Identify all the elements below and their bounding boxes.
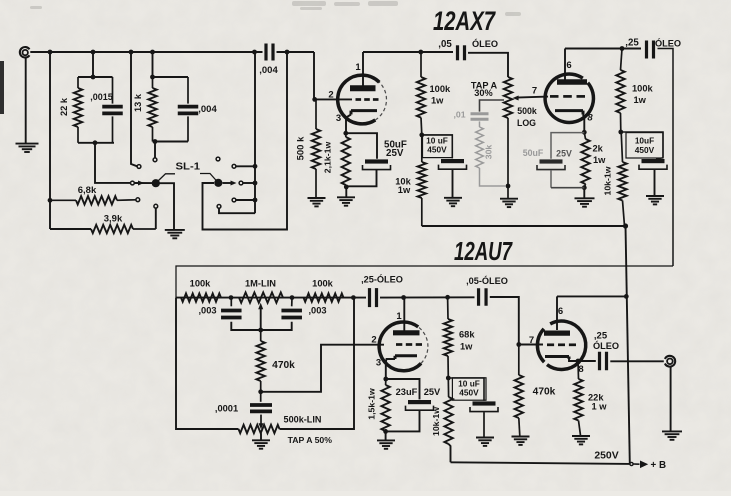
svg-text:10k-1w: 10k-1w [603,166,613,195]
pin 1 wire V2a [403,298,405,331]
svg-text:TAP A 50%: TAP A 50% [288,435,333,445]
contact circle b-corner [217,205,221,209]
label ,01 [453,110,465,120]
wire tone rail [176,297,366,299]
capacitor C ,05 oleo [458,45,465,60]
wiper wire V1b grid [516,97,548,98]
svg-text:450V: 450V [459,388,479,398]
label ,0001 [215,404,238,414]
wire 1,5k gnd [385,431,387,440]
label ,25 top [625,38,639,49]
ground 2k [575,198,595,206]
label OLEO 1 [472,38,498,49]
anode V2b [544,331,570,336]
node 6.8k junction [48,198,53,203]
wire bypass loop [203,52,288,230]
contact circle bottom [154,204,158,208]
node plate1 [418,50,423,55]
label 500k LOG [517,106,537,128]
label TAP A 30% [471,80,498,98]
label ,05-OLEO [466,275,508,286]
svg-text:,25: ,25 [625,38,639,49]
label 100k t1 [190,279,212,289]
wire 3,9k to contact [155,208,157,229]
svg-text:500k: 500k [517,106,537,116]
potentiometer 500k-LIN [239,425,280,433]
svg-text:3,9k: 3,9k [104,214,123,225]
svg-text:68k: 68k [459,330,475,340]
wire to 12AU7 section [176,49,673,298]
svg-text:7: 7 [532,86,537,97]
wire grid V2a [261,345,384,392]
ground pot [500,199,518,207]
resistor 13k [148,77,156,142]
label 10uF 450V (2) [635,135,655,155]
pin 6 wire V2b [556,296,558,330]
resistor 10k 1w (1) [418,135,426,226]
node dots top rail [48,50,290,55]
svg-text:ÓLEO: ÓLEO [655,38,681,49]
wire contact b-top [236,165,255,167]
svg-text:,003: ,003 [198,306,216,316]
capacitor 10uF 450V (2) [639,158,667,169]
capacitor C ,0015 [102,77,123,143]
wire bus drop x255 [254,52,256,213]
node grid V2b [516,342,521,347]
label 10k-1w (3) [431,407,441,436]
node grid1 [312,97,317,102]
label 50uF 25V [384,139,407,159]
label 12AX7 [433,6,496,36]
label 68k 1w [459,330,475,352]
contact circle lower-left [136,198,140,202]
svg-text:3: 3 [376,358,381,369]
svg-text:2: 2 [371,335,376,346]
ground 470k (2) [512,437,530,445]
svg-text:,004: ,004 [259,65,278,76]
wire B+ vertical [626,226,630,464]
svg-text:,0015: ,0015 [90,92,113,102]
pin 1 wire V1a [362,52,364,86]
node tone2 [290,295,295,300]
label 13k [133,93,143,112]
tube V1a envelope [338,75,387,124]
capacitor C ,004 shunt [178,77,199,142]
svg-text:100k: 100k [632,84,654,94]
ground 22k [572,436,590,444]
grid V1b [550,95,585,98]
resistor 100k 1w plate1 [417,52,425,135]
capacitor ,25-OLEO [370,288,377,307]
wire tone rail 2 [380,296,475,298]
wire jack2 gnd [670,367,672,431]
resistor 10k-1w (3) [444,378,452,462]
box 10uF 450V (3) [452,378,486,400]
label 23uF 25V [396,387,441,397]
node plate rail B+ [624,294,629,299]
svg-text:50uF: 50uF [523,148,544,158]
potentiometer 500k LOG [504,77,512,198]
svg-text:ÓLEO: ÓLEO [472,38,498,49]
capacitor ,01 tap [471,114,489,119]
node decouple2 [618,130,623,135]
label 6,8k [78,185,97,196]
label 1M-LIN [245,279,276,289]
capacitor 50uF 25V (2) [537,133,584,188]
label pin2 V1a [328,90,333,101]
node net1 bottom [93,140,98,145]
node cathode1 bottom [344,185,349,190]
capacitor ,25 out [600,352,607,371]
svg-text:470k: 470k [272,360,295,371]
wire cathode1 gnd [345,187,347,197]
label ,0015 [90,92,113,102]
svg-text:3: 3 [336,113,341,124]
resistor 100k tone-right [304,293,344,301]
label 100k t2 [312,279,334,289]
label pin8 V1b [587,113,593,124]
capacitor ,05-OLEO [479,288,487,306]
label 470k tone [272,360,295,371]
anode V1a [350,85,376,91]
wire top rail left [30,51,262,53]
svg-text:30k: 30k [484,145,494,160]
tube V1b envelope [545,74,593,122]
input jack J1 [20,47,30,58]
wire decouple1 cap [422,135,453,159]
anode V2a [393,330,420,335]
label ,004 shunt [198,104,217,115]
node 470k bottom [258,389,263,394]
wire grid V2b [490,297,543,345]
resistor 6,8k [50,196,136,204]
pin 3 wire V1a [346,115,351,134]
wire contact drop x131 [131,52,137,166]
tube V2b envelope [537,321,585,369]
wire rotor-a to ground [156,183,174,229]
svg-text:500k-LIN: 500k-LIN [284,415,322,425]
ground tap [252,440,270,448]
svg-text:ÓLEO: ÓLEO [593,340,619,351]
terminal +B [630,462,640,465]
wiper circle right [239,181,243,185]
svg-text:,05: ,05 [438,39,452,50]
label ,05 [438,39,452,50]
wire net2 top bar [153,76,189,78]
resistor 2,1k-1w [342,133,350,187]
label ,25-OLEO [361,274,403,285]
resistor 3,9k [91,225,156,233]
capacitor C ,004 series [259,44,278,77]
ground input jack [16,144,39,152]
wire plate1 rail [363,51,453,53]
wire plate2 rail [565,48,641,50]
wire top rail after cap [277,51,315,53]
ground 10uF (2) [646,196,664,204]
label pin8 V2b [578,364,583,375]
capacitor 10uF 450V (1) [439,159,467,169]
wire decouple2 cap [621,132,663,158]
svg-text:6,8k: 6,8k [78,185,97,196]
grid V2b dashes [547,343,576,346]
svg-text:2,1k-1w: 2,1k-1w [323,142,333,174]
svg-text:23uF: 23uF [396,387,418,397]
arrowhead wiper left [138,181,144,186]
svg-text:1: 1 [396,311,402,322]
resistor 100k tone-left [181,293,221,301]
cathode V2b [545,357,569,360]
label pin7 V1b [532,86,537,97]
arrowhead pot wiper [513,96,519,101]
svg-text:,01: ,01 [453,110,465,120]
svg-text:470k: 470k [533,387,556,398]
wire tone left loop [176,298,239,429]
svg-text:1,5k-1w: 1,5k-1w [367,388,377,420]
svg-text:+ B: + B [651,460,667,471]
wire 10uF2 gnd [654,170,656,196]
capacitor ,003 left [221,298,261,330]
label ,003 left [198,306,216,316]
label pin6 V2b [558,306,563,317]
svg-text:1M-LIN: 1M-LIN [245,279,276,289]
svg-text:100k: 100k [312,279,334,289]
label pin7 V2b [529,335,534,346]
svg-text:8: 8 [587,113,593,124]
resistor 10k-1w (2) [618,132,626,226]
svg-text:10uF: 10uF [635,135,654,145]
svg-text:,25-ÓLEO: ,25-ÓLEO [361,274,403,285]
ground 2,1k [337,197,355,205]
wire net1 to wiper [95,143,131,183]
label 22k [59,97,69,116]
node decouple1 [419,133,424,138]
wire net2 bottom bar [153,141,189,143]
svg-text:25V: 25V [556,149,572,159]
wire contact b-corner [219,208,255,213]
ground 500k [308,198,326,206]
wiper circle left [131,181,135,185]
wire net1 drop [92,52,94,77]
node tone3 [351,295,356,300]
svg-text:22 k: 22 k [59,97,69,116]
label 3,9k [104,214,123,225]
label +B [651,460,667,471]
label 250V [594,451,618,462]
svg-text:100k: 100k [430,84,452,94]
wire tap 500k-LIN gnd [260,433,262,440]
svg-text:1w: 1w [398,185,411,195]
cathode V1b [555,111,583,115]
label 10uF 450V (1) [426,136,448,155]
svg-text:,25: ,25 [594,331,608,342]
node 68k top [445,295,450,300]
rotor SL-1b [214,179,222,187]
svg-text:30%: 30% [474,88,492,98]
node net2 bottom [153,139,158,144]
capacitor 23uF 25V [386,379,434,431]
svg-text:1w: 1w [634,95,647,105]
contact circle b-iso [216,157,220,161]
potentiometer 1M-LIN [239,292,283,302]
node cathode3 bottom [383,429,388,434]
svg-text:12AU7: 12AU7 [454,236,513,266]
label 470k (2) [533,387,556,398]
resistor 22k 1w [574,361,582,436]
svg-text:SL-1: SL-1 [176,162,201,173]
label 30k [484,145,494,160]
ground output jack [662,431,682,439]
node 22k junction [576,359,581,364]
label 2,1k-1w [323,142,333,174]
svg-text:LOG: LOG [517,118,536,128]
wire decouple3 cap [448,378,484,401]
contact circle b-bot [232,198,236,202]
label pin1 V1a [355,62,361,73]
contact circle upper-left [137,165,141,169]
wire tap [480,100,505,112]
svg-text:6: 6 [566,60,571,71]
svg-text:2: 2 [328,90,333,101]
node plate2 [620,46,625,51]
leader SL-1 left [159,174,176,181]
pin 3 wire V2a [386,359,395,379]
scan edge mark [0,61,4,114]
label pin2 V2a [371,335,376,346]
svg-text:6: 6 [558,306,563,317]
label 12AU7 [454,236,513,266]
resistor 30k tap [476,121,506,186]
leader SL-1 right [200,174,216,181]
svg-text:500 k: 500 k [296,136,307,160]
capacitor ,0001 [250,392,272,426]
svg-text:250V: 250V [594,451,618,462]
wiper 1M arrow [258,303,263,333]
scan bleed top [30,1,521,16]
label 100k 1w (1) [430,84,452,106]
wire grid1 drop [314,52,352,99]
label SL-1 [176,162,201,173]
label 1,5k-1w [367,388,377,420]
svg-text:450V: 450V [635,145,655,155]
node B+ corner [623,223,628,228]
wire left vertical [49,52,51,229]
node V2a plate [401,295,406,300]
node pot bottom [506,184,511,189]
wire cathode V2b out [569,359,596,361]
wire rail to pot [468,53,508,77]
node net1 top [91,75,96,80]
svg-text:1w: 1w [431,96,444,106]
svg-text:,004: ,004 [198,104,217,115]
ground 10uF (3) [476,438,494,446]
svg-text:10k-1w: 10k-1w [431,407,441,436]
svg-text:25V: 25V [386,148,404,159]
wire rotor-b arrow [223,182,233,184]
resistor 500k grid [312,99,320,197]
label 10uF 450V (3) [458,379,480,398]
node decouple3 [446,376,451,381]
ground SL-1 [165,230,185,238]
svg-text:13 k: 13 k [133,93,143,112]
output jack J2 [665,356,675,367]
label 100k 1w (2) [632,84,654,106]
svg-text:25V: 25V [424,387,441,397]
svg-text:2k: 2k [593,144,604,154]
contact circle upper-mid [153,158,157,162]
node cathode2 bottom [582,185,587,190]
node net2 top [150,75,155,80]
capacitor 50uF 25V [346,133,391,186]
label 10k 1w (1) [395,177,411,195]
pin 6 wire V1b [564,49,566,82]
wire contact b-bot [236,199,255,201]
label ,25 out [593,331,619,352]
node cathode3 [383,377,388,382]
label 10k-1w (2) [603,166,613,195]
grid V2a dashes [396,343,422,346]
wire wiper left [134,182,153,184]
svg-text:12AX7: 12AX7 [433,6,496,36]
label TAP A 50% [288,435,333,445]
svg-text:100k: 100k [190,279,212,289]
pin 8 wire V1b [583,115,584,133]
wire plate V2b rail [557,295,626,297]
svg-text:1: 1 [355,62,361,73]
cathode V2a [395,356,417,359]
label pin3 V2a [376,358,381,369]
label pin1 V2a [396,311,402,322]
label pin3 V1a [336,113,341,124]
contact circle b-top [232,164,236,168]
ground 10uF (1) [444,198,462,206]
node cathode2 [582,130,587,135]
wire 3,9k left [50,228,91,230]
label ,003 right [308,306,326,316]
arrowhead wiper right [231,181,237,186]
svg-text:,0001: ,0001 [215,404,238,414]
label 22k 1w [588,392,607,411]
wire net2 drop [152,52,154,77]
cathode V1a [351,111,377,115]
wire B+ bottom rail [451,462,630,464]
arrowhead +B [640,461,648,469]
capacitor 10uF 450V (3) [470,401,498,437]
wire net2 to contact [154,142,156,158]
resistor 470k grid V2b [515,345,523,437]
wire out to jack [610,360,664,362]
node cathode1 [343,131,348,136]
resistor 470k tone [257,330,265,392]
svg-text:1 w: 1 w [592,402,608,412]
grid V1a [356,98,379,101]
capacitor C ,25 oleo [647,41,654,59]
svg-text:,05-ÓLEO: ,05-ÓLEO [466,275,508,286]
wire 2k gnd [583,188,585,198]
svg-text:450V: 450V [427,144,447,154]
svg-text:,003: ,003 [308,306,326,316]
label 50uF (2) [523,148,572,159]
node dots bus [253,164,258,203]
anode V1b [557,79,587,85]
wire B+ rail top [422,225,627,227]
ground 1,5k [377,440,395,448]
label 500k [296,136,307,160]
arrowhead 500k-LIN wiper [259,423,264,429]
wire wiper right to bus [243,182,255,184]
rotor SL-1a [152,179,160,187]
label OLEO 2 [655,38,681,49]
svg-text:1w: 1w [593,155,606,165]
